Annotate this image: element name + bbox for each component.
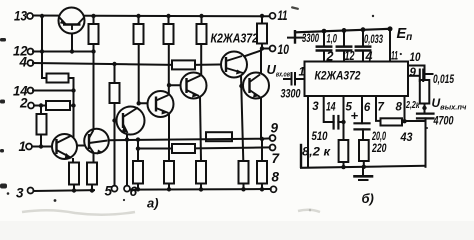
svg-text:20,0: 20,0 (371, 131, 386, 143)
svg-text:11: 11 (391, 51, 398, 63)
svg-text:6: 6 (130, 184, 138, 199)
svg-text:8: 8 (396, 102, 403, 114)
svg-text:+: + (351, 108, 359, 123)
svg-text:7: 7 (378, 102, 385, 114)
svg-text:4: 4 (365, 50, 373, 64)
svg-text:1: 1 (299, 67, 305, 79)
svg-text:9: 9 (410, 67, 417, 79)
svg-text:13: 13 (14, 9, 27, 24)
svg-text:43: 43 (400, 132, 413, 144)
svg-text:а): а) (147, 196, 159, 211)
svg-text:1,0: 1,0 (327, 34, 338, 46)
svg-text:3: 3 (312, 101, 319, 113)
svg-text:9: 9 (271, 121, 279, 136)
svg-text:К2ЖА372: К2ЖА372 (315, 71, 362, 83)
svg-text:2,2к: 2,2к (405, 99, 420, 111)
svg-text:2: 2 (19, 96, 28, 111)
svg-text:8: 8 (272, 170, 280, 185)
svg-text:3: 3 (16, 186, 24, 201)
svg-text:14: 14 (326, 102, 336, 114)
svg-text:10: 10 (278, 42, 290, 57)
svg-text:8,2 к: 8,2 к (302, 147, 331, 159)
svg-text:0,033: 0,033 (364, 34, 383, 46)
svg-text:510: 510 (312, 131, 329, 143)
svg-text:4: 4 (19, 55, 28, 70)
svg-text:б): б) (362, 191, 374, 206)
svg-text:3300: 3300 (281, 89, 301, 101)
svg-text:10: 10 (410, 52, 422, 64)
svg-text:3300: 3300 (302, 33, 319, 45)
svg-text:2: 2 (326, 50, 334, 64)
svg-text:220: 220 (371, 143, 387, 155)
svg-text:12: 12 (345, 49, 355, 63)
svg-text:5: 5 (105, 184, 113, 199)
svg-text:1: 1 (19, 139, 27, 154)
svg-text:6: 6 (364, 102, 371, 114)
svg-text:К2ЖА372: К2ЖА372 (211, 32, 259, 46)
svg-text:11: 11 (278, 8, 288, 23)
svg-text:4700: 4700 (433, 116, 454, 128)
svg-text:0,015: 0,015 (433, 74, 454, 86)
